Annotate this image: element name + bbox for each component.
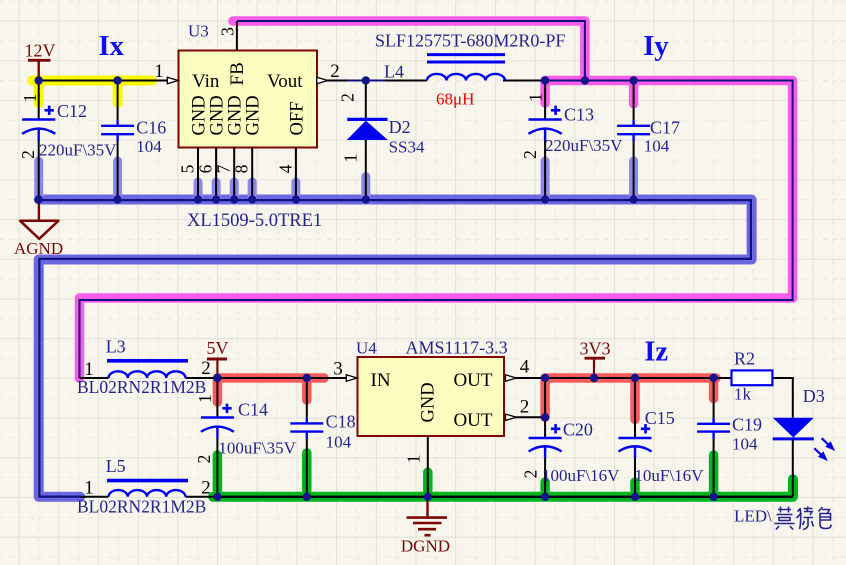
svg-text:C17: C17 (650, 118, 680, 138)
wire 12V rail (black core) (39, 80, 179, 82)
wire D3 cathode to DGND bus (792, 439, 794, 497)
svg-text:2: 2 (520, 397, 530, 418)
wire FB top rail (navy core under pink) (237, 21, 585, 81)
wire OUT node down to C20 (544, 378, 546, 438)
svg-text:3: 3 (333, 359, 343, 380)
wire highlight net Iy (pink) FB/output net (80, 21, 793, 378)
svg-text:FB: FB (227, 62, 248, 85)
U3 pin 1 (Vin) input arrow (167, 77, 178, 83)
svg-text:104: 104 (732, 435, 758, 454)
U4 pin 3 (IN) input arrow (346, 375, 357, 381)
highlight stubs on DGND pins (green) (217, 453, 713, 490)
svg-text:Vin: Vin (192, 71, 220, 92)
svg-text:104: 104 (136, 137, 162, 156)
wire C13 to right corner (navy core under pink) (80, 81, 793, 379)
capacitor C16 (104) (101, 81, 134, 200)
wire L5 pin2 to DGND bus (186, 496, 218, 498)
svg-text:C18: C18 (326, 412, 356, 432)
wire pink end to L3 pin1 (80, 377, 109, 379)
svg-text:C14: C14 (238, 400, 268, 420)
svg-text:7: 7 (214, 164, 234, 173)
power port 12V (25, 41, 56, 81)
svg-text:Ix: Ix (99, 31, 125, 62)
wire AGND bus (navy core) (39, 200, 751, 497)
svg-text:OUT: OUT (453, 370, 492, 391)
wire highlight DGND bus (green) (213, 479, 793, 497)
svg-text:2: 2 (520, 150, 540, 159)
svg-text:GND: GND (226, 95, 246, 135)
svg-text:1: 1 (341, 154, 361, 163)
LED D3 (773, 418, 835, 461)
ground DGND (401, 497, 450, 556)
svg-text:2: 2 (201, 358, 211, 379)
svg-text:AGND: AGND (14, 239, 63, 258)
U4 pin 4 (OUT) output arrow (506, 375, 517, 381)
wire Vout to L4 (317, 80, 427, 82)
wire L3 pin2 to U4 IN (186, 377, 358, 379)
U4 pin 1 lead (GND) (427, 436, 429, 497)
svg-text:1: 1 (195, 394, 215, 403)
svg-text:1: 1 (404, 455, 424, 464)
capacitor C13 (polarized 220uF/35V) (529, 81, 562, 200)
IC U4 AMS1117-3.3 (358, 357, 505, 436)
svg-text:220uF\35V: 220uF\35V (39, 141, 117, 160)
svg-text:220uF\35V: 220uF\35V (545, 136, 623, 155)
svg-text:BL02RN2R1M2B: BL02RN2R1M2B (77, 497, 206, 517)
U3 pin 3 lead (FB) (236, 21, 238, 51)
svg-text:C15: C15 (645, 408, 675, 428)
svg-text:6: 6 (196, 164, 216, 173)
svg-text:U3: U3 (188, 22, 209, 41)
U3 pin 8 lead (251, 148, 253, 200)
svg-text:SS34: SS34 (389, 138, 425, 157)
svg-text:2: 2 (338, 93, 358, 102)
svg-text:1k: 1k (734, 385, 752, 404)
capacitor C18 (104) (290, 378, 323, 497)
svg-text:104: 104 (644, 137, 670, 156)
svg-text:12V: 12V (25, 41, 56, 61)
svg-text:5: 5 (178, 164, 198, 173)
svg-text:1: 1 (154, 61, 164, 82)
capacitor C15 (polarized 10uF/16V) (619, 378, 652, 497)
U3 pin 4 lead (OFF) (295, 148, 297, 200)
inductor L3 BL02RN2R1M2B (107, 361, 188, 378)
svg-text:C19: C19 (732, 415, 762, 435)
wire highlight net Ix (yellow) 12V rail (32, 81, 152, 104)
ground AGND (14, 200, 63, 259)
svg-text:GND: GND (208, 95, 228, 135)
svg-text:104: 104 (326, 433, 352, 452)
svg-text:U4: U4 (356, 339, 377, 358)
wire AGND bus to L5 pin1 (80, 496, 108, 498)
svg-text:4: 4 (275, 164, 295, 173)
svg-text:2: 2 (521, 470, 541, 479)
svg-text:Iy: Iy (643, 31, 668, 62)
svg-text:4: 4 (520, 357, 530, 378)
svg-text:Iz: Iz (644, 337, 668, 368)
svg-text:DGND: DGND (401, 537, 450, 556)
svg-text:Vout: Vout (267, 71, 303, 92)
svg-text:68μH: 68μH (436, 90, 474, 109)
wire U4 OUT2 (504, 416, 545, 418)
power port 5V (207, 338, 229, 378)
svg-text:L3: L3 (106, 337, 126, 357)
wire DGND bus (black core) (217, 496, 793, 498)
wire node segment (navy) at L4 node (347, 80, 385, 82)
highlight stubs on AGND pins (light blue) (39, 161, 634, 200)
svg-text:L4: L4 (384, 62, 404, 82)
svg-text:3: 3 (218, 27, 238, 36)
svg-text:AMS1117-3.3: AMS1117-3.3 (406, 338, 508, 358)
svg-text:D3: D3 (803, 386, 825, 406)
svg-text:R2: R2 (734, 349, 755, 369)
svg-text:C13: C13 (564, 105, 594, 125)
svg-text:100uF\35V: 100uF\35V (218, 439, 296, 458)
svg-text:1: 1 (20, 94, 40, 103)
wire U4 OUT rail to D3 (504, 378, 793, 418)
svg-text:XL1509-5.0TRE1: XL1509-5.0TRE1 (187, 211, 322, 231)
svg-text:8: 8 (232, 164, 252, 173)
capacitor C17 (104) (617, 81, 650, 200)
resistor R2 (1k) (732, 370, 773, 385)
svg-text:BL02RN2R1M2B: BL02RN2R1M2B (77, 377, 206, 397)
U3 pin 6 lead (215, 148, 217, 200)
svg-text:2: 2 (194, 455, 214, 464)
svg-text:GND: GND (419, 382, 439, 422)
inductor L5 BL02RN2R1M2B (107, 481, 188, 497)
svg-text:GND: GND (244, 95, 264, 135)
IC U3 XL1509-5.0TRE1 (179, 51, 318, 148)
capacitor C19 (104) (697, 378, 730, 497)
capacitor C20 (polarized 100uF/16V) (529, 424, 562, 497)
power port 3V3 (580, 339, 611, 379)
U3 pin 5 lead (197, 148, 199, 200)
capacitor C12 (polarized 220uF/35V) (22, 81, 55, 200)
svg-text:C20: C20 (563, 420, 593, 440)
wire highlight AGND bus (blue) (39, 200, 752, 497)
svg-text:1: 1 (526, 93, 546, 102)
svg-text:OUT: OUT (453, 410, 492, 431)
wire L4 to C13 (503, 80, 545, 82)
svg-text:C12: C12 (57, 101, 87, 121)
svg-text:2: 2 (201, 478, 211, 499)
svg-text:2: 2 (330, 61, 340, 82)
U3 pin 7 lead (233, 148, 235, 200)
svg-text:LED\: LED\ (734, 507, 772, 526)
svg-text:GND: GND (190, 95, 210, 135)
svg-text:D2: D2 (389, 117, 411, 137)
svg-text:1: 1 (84, 478, 94, 499)
svg-text:IN: IN (371, 370, 391, 391)
wire highlight net 5V/3V3 (salmon) (217, 378, 716, 419)
diode D2 SS34 (347, 81, 388, 200)
U3 pin 2 (Vout) output arrow (317, 77, 328, 83)
svg-text:3V3: 3V3 (580, 339, 611, 359)
svg-text:10uF\16V: 10uF\16V (634, 466, 704, 485)
svg-text:OFF: OFF (287, 102, 307, 136)
svg-text:SLF12575T-680M2R0-PF: SLF12575T-680M2R0-PF (375, 31, 565, 51)
svg-text:C16: C16 (136, 118, 166, 138)
capacitor C14 (polarized 100uF/35V) (201, 378, 234, 497)
U4 pin 2 (OUT) output arrow (506, 414, 517, 420)
svg-text:2: 2 (18, 150, 38, 159)
svg-text:5V: 5V (207, 338, 229, 358)
D3 value LED\黄绿色 (734, 507, 831, 530)
svg-text:L5: L5 (106, 456, 126, 476)
svg-text:100uF\16V: 100uF\16V (542, 466, 620, 485)
inductor L4 SLF12575T (68uH) (427, 55, 505, 81)
